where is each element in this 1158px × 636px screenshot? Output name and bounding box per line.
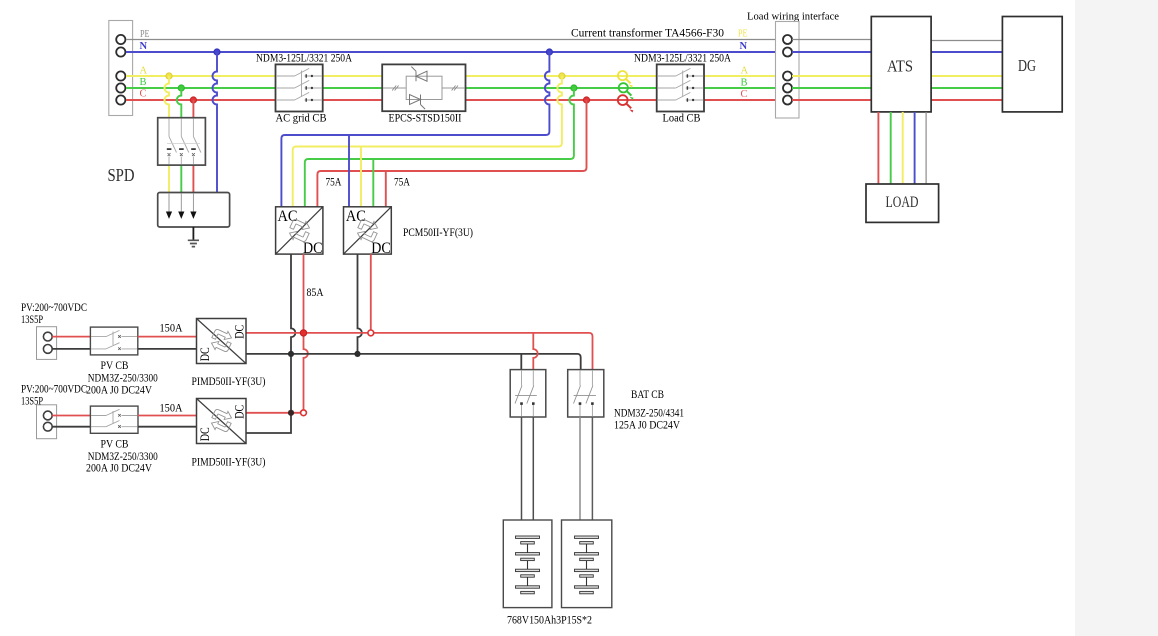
svg-text:125A J0 DC24V: 125A J0 DC24V: [614, 420, 681, 432]
wire B tap to SPD (hops C): [177, 88, 182, 118]
load wiring interface terminal block: [776, 22, 800, 119]
svg-text:DC: DC: [232, 325, 246, 339]
SPD arrester box: [158, 193, 230, 228]
svg-text:PV CB: PV CB: [101, 439, 129, 451]
node C tap dot (left): [190, 97, 196, 103]
svg-text:AC: AC: [346, 208, 366, 225]
wire B ATS to DG: [931, 87, 1002, 89]
CT sensor phase C: [618, 95, 634, 112]
svg-text:NDM3Z-250/4341: NDM3Z-250/4341: [614, 408, 684, 420]
wire B branch to PCS2: [372, 159, 374, 207]
PV terminal block 2: [37, 405, 57, 439]
svg-text:DC: DC: [303, 240, 323, 257]
svg-text:200A J0 DC24V: 200A J0 DC24V: [86, 463, 153, 475]
svg-text:75A: 75A: [326, 176, 343, 188]
SPD disconnect switch box: [158, 118, 206, 165]
svg-text:C: C: [140, 89, 147, 100]
wire C between SPD boxes: [192, 165, 194, 192]
battery BT2 768V150Ah: [562, 520, 612, 608]
wire PV CB2 + to PIMD2: [138, 415, 197, 417]
wire PV2 + to PV CB2: [52, 415, 90, 417]
svg-text:DC: DC: [371, 240, 391, 257]
PV terminal block 1: [37, 327, 57, 360]
wire PV CB2 - to PIMD2: [138, 426, 197, 428]
wire B between SPD boxes: [180, 165, 182, 192]
wire C phase segments: [126, 99, 776, 101]
wire PE ATS to DG: [931, 40, 1002, 42]
svg-text:NDM3-125L/3321 250A: NDM3-125L/3321 250A: [634, 53, 732, 65]
node A tap dot (right): [559, 73, 565, 79]
svg-text:PIMD50II-YF(3U): PIMD50II-YF(3U): [192, 456, 266, 468]
wire BAT CB1 to battery1: [522, 417, 534, 520]
svg-text:PE: PE: [140, 29, 150, 40]
static switch EPCS-STSD150II: [382, 64, 465, 111]
svg-text:AC grid CB: AC grid CB: [276, 112, 327, 124]
node B tap dot (left): [178, 85, 184, 91]
svg-text:DC: DC: [198, 347, 212, 361]
svg-text:B: B: [741, 78, 748, 89]
PCS converter U2 (PCM50II AC/DC): [276, 207, 323, 257]
wire PE ATS to LOAD: [925, 112, 927, 184]
svg-text:Load CB: Load CB: [663, 112, 701, 124]
wire A drop to PCS AC bus (hops B,C): [293, 76, 562, 207]
wire PV2 - to PV CB2: [52, 426, 90, 428]
wire A between SPD boxes: [168, 165, 170, 192]
wire N drop to PCS AC bus (hops A,B,C): [281, 52, 549, 207]
wire PE block to ATS: [792, 39, 871, 41]
node A tap dot (left): [166, 73, 172, 79]
wire N block to ATS: [792, 51, 871, 53]
DC converter PIMD1 (PIMD50II DC/DC): [197, 319, 247, 364]
svg-text:DG: DG: [1018, 56, 1036, 75]
wire C branch to PCS2: [385, 171, 387, 207]
ATS U1: [871, 17, 931, 112]
wire DC+ bus: [246, 333, 593, 370]
svg-text:BAT CB: BAT CB: [631, 389, 664, 401]
wire PCS2 DC+ drop: [370, 254, 372, 333]
svg-text:200A J0 DC24V: 200A J0 DC24V: [86, 384, 153, 396]
svg-text:PE: PE: [738, 29, 748, 40]
wire C tap to SPD: [192, 100, 194, 118]
wire A tap to SPD (hops B,C): [165, 76, 170, 118]
svg-text:PIMD50II-YF(3U): PIMD50II-YF(3U): [192, 376, 266, 388]
node N junction dot (right drop): [546, 49, 552, 55]
svg-text:768V150Ah3P15S*2: 768V150Ah3P15S*2: [507, 614, 592, 626]
battery BT1 768V150Ah: [503, 520, 552, 608]
svg-text:SPD: SPD: [108, 165, 135, 185]
wire BAT CB2 to battery2: [579, 417, 581, 520]
wire DC+ branch to BAT CB1 (hops black bus): [533, 333, 537, 370]
ground: [188, 227, 199, 247]
svg-text:C: C: [741, 89, 748, 100]
svg-text:Current transformer TA4566-F30: Current transformer TA4566-F30: [571, 25, 724, 39]
svg-text:75A: 75A: [394, 176, 411, 188]
wire PV1 - to PV CB1: [52, 348, 90, 350]
wire B block to ATS: [792, 87, 871, 89]
wire DC- branch to BAT CB1: [520, 354, 522, 370]
CT sensor phase A: [618, 71, 633, 88]
node DC+ junction dot PCS1: [300, 330, 306, 336]
breaker PV CB2: [90, 406, 138, 433]
wire A phase segments: [126, 75, 776, 77]
wire DC- bus: [246, 354, 581, 370]
svg-text:DC: DC: [198, 427, 212, 441]
wire A ATS to LOAD: [902, 112, 904, 184]
wire N branch to PCS2: [348, 135, 350, 207]
wire A branch to PCS2: [360, 147, 362, 207]
svg-text:LOAD: LOAD: [886, 194, 919, 211]
wire PV CB1 + to PIMD1: [138, 336, 197, 338]
breaker BAT CB1: [510, 370, 546, 417]
breaker PV CB1: [90, 327, 137, 355]
wire C block to ATS: [792, 99, 871, 101]
svg-text:150A: 150A: [160, 322, 184, 334]
DG generator box: [1002, 17, 1062, 112]
svg-text:A: A: [140, 66, 148, 77]
svg-text:EPCS-STSD150II: EPCS-STSD150II: [389, 112, 462, 124]
wire A ATS to DG: [931, 75, 1002, 77]
right margin shading: [1075, 0, 1158, 636]
wire C drop to PCS AC bus: [317, 100, 586, 207]
CT sensor phase B: [619, 83, 634, 100]
DC converter PIMD2 (PIMD50II DC/DC): [197, 399, 247, 444]
PCS converter U3 (PCM50II AC/DC): [344, 207, 392, 257]
grid input terminal block: [109, 21, 133, 116]
breaker BAT CB2: [568, 370, 604, 417]
svg-text:NDM3Z-250/3300: NDM3Z-250/3300: [88, 372, 158, 384]
wire N ATS to DG: [931, 51, 1002, 53]
svg-text:NDM3-125L/3321 250A: NDM3-125L/3321 250A: [256, 53, 353, 65]
breaker AC grid CB: [276, 64, 323, 111]
wire B ATS to LOAD: [890, 112, 892, 184]
node B tap dot (right): [571, 85, 577, 91]
node DC+ junction ring PCS2: [368, 330, 374, 336]
svg-text:DC: DC: [232, 405, 246, 419]
wire PE main: [126, 39, 776, 41]
wire PV1 + to PV CB1: [52, 336, 90, 338]
svg-text:Load wiring interface: Load wiring interface: [747, 11, 839, 23]
wire B phase segments: [126, 87, 776, 89]
wire PIMD2 DC+ link to bus: [246, 412, 300, 414]
svg-text:AC: AC: [278, 208, 298, 225]
wire PCS2 DC- drop (hops red bus): [358, 254, 362, 354]
wire N drop to SPD (hops A,B,C): [213, 52, 218, 193]
svg-text:PV:200~700VDC: PV:200~700VDC: [21, 302, 87, 314]
wire C ATS to LOAD: [877, 112, 879, 184]
breaker Load CB: [657, 64, 704, 111]
wire N main: [126, 51, 776, 53]
wire PV CB1 - to PIMD1: [138, 348, 197, 350]
node DC- junction dot PCS1: [288, 351, 294, 357]
wire B drop to PCS AC bus (hops C): [305, 88, 574, 207]
node C tap dot (right): [583, 97, 589, 103]
wire PCS1 DC- drop (hops red bus): [246, 254, 295, 433]
svg-text:ATS: ATS: [887, 56, 913, 75]
svg-text:PV:200~700VDC: PV:200~700VDC: [21, 383, 87, 395]
svg-text:A: A: [741, 66, 749, 77]
node crossing dot PIMD2: [288, 410, 294, 416]
svg-text:85A: 85A: [307, 287, 325, 299]
wire A block to ATS: [792, 75, 871, 77]
svg-text:13S5P: 13S5P: [21, 314, 43, 326]
svg-text:NDM3Z-250/3300: NDM3Z-250/3300: [88, 451, 158, 463]
node N junction dot (left drop): [214, 49, 220, 55]
node DC- junction dot PCS2: [354, 351, 360, 357]
LOAD box: [866, 184, 939, 222]
svg-text:N: N: [140, 41, 148, 52]
svg-text:PV CB: PV CB: [101, 360, 129, 372]
svg-text:B: B: [140, 77, 147, 88]
svg-text:N: N: [740, 41, 748, 52]
svg-text:PCM50II-YF(3U): PCM50II-YF(3U): [403, 227, 473, 239]
node DC+ junction ring PIMD2: [301, 410, 307, 416]
svg-text:150A: 150A: [160, 402, 184, 414]
wire PCS1 DC+ drop (hops black bus): [304, 254, 308, 410]
wire N ATS to LOAD: [914, 112, 916, 184]
wire C ATS to DG: [931, 99, 1002, 101]
